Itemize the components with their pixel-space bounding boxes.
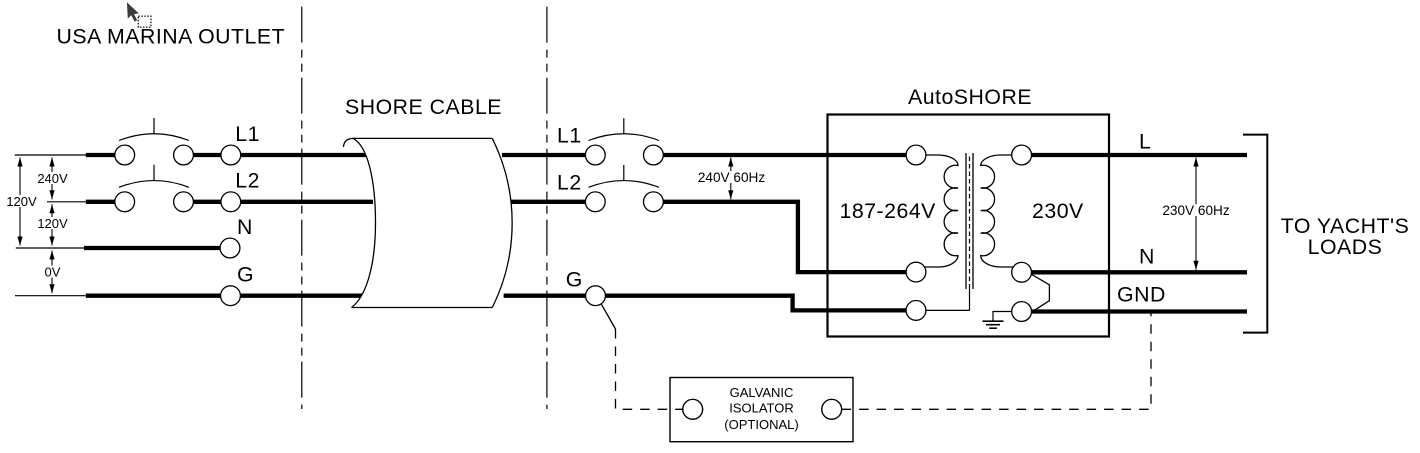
svg-text:L2: L2 [557,171,582,195]
svg-text:G: G [566,268,583,292]
svg-text:N: N [237,215,253,239]
svg-text:240V 60Hz: 240V 60Hz [698,170,765,185]
svg-text:0V: 0V [45,264,61,279]
svg-text:230V 60Hz: 230V 60Hz [1162,203,1229,218]
svg-text:LOADS: LOADS [1308,235,1383,259]
svg-text:L2: L2 [235,169,260,193]
svg-text:(OPTIONAL): (OPTIONAL) [724,417,798,432]
svg-text:120V: 120V [6,194,37,209]
svg-text:187-264V: 187-264V [840,199,937,223]
svg-text:230V: 230V [1032,199,1084,223]
svg-text:120V: 120V [37,216,68,231]
svg-text:SHORE CABLE: SHORE CABLE [345,95,502,119]
svg-text:G: G [237,263,254,287]
svg-text:AutoSHORE: AutoSHORE [908,85,1032,109]
svg-text:USA MARINA OUTLET: USA MARINA OUTLET [57,24,286,48]
svg-text:ISOLATOR: ISOLATOR [729,401,794,416]
svg-text:GND: GND [1117,283,1166,307]
svg-text:L: L [1139,130,1151,154]
svg-text:L1: L1 [235,122,260,146]
svg-text:N: N [1139,245,1155,269]
svg-text:GALVANIC: GALVANIC [730,385,794,400]
svg-text:240V: 240V [37,171,68,186]
svg-text:L1: L1 [557,124,582,148]
